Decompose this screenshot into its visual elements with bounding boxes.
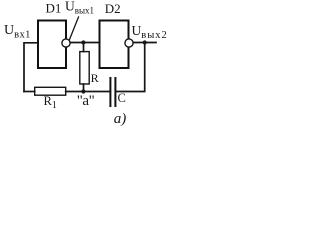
svg-text:"а": "а": [77, 93, 95, 109]
svg-text:а): а): [114, 111, 127, 127]
svg-text:D2: D2: [105, 1, 121, 16]
svg-text:C: C: [118, 91, 126, 105]
svg-text:D1: D1: [46, 1, 62, 16]
svg-text:R: R: [91, 71, 99, 85]
